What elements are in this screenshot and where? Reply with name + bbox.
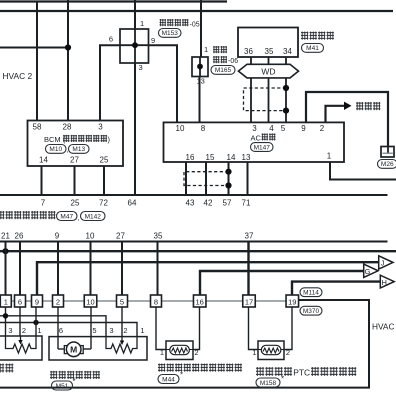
HVAC harness connector pin box 1 — [0, 295, 11, 307]
wire: conn 6 down to mode PBR pin 2 — [19, 307, 21, 336]
wire: feed line B to intake PBR pin 1 — [0, 323, 137, 337]
svg-text:5: 5 — [281, 124, 286, 133]
svg-text:M51: M51 — [56, 383, 69, 390]
svg-text:35: 35 — [265, 47, 274, 56]
label 转接 接头-06 — [213, 46, 227, 53]
svg-text:M147: M147 — [254, 144, 271, 151]
svg-text:1: 1 — [204, 45, 208, 54]
wire: amp pin 21 down to HVAC conn pin 1 — [5, 242, 7, 296]
svg-text:21: 21 — [1, 232, 10, 241]
svg-text:6: 6 — [59, 326, 63, 335]
svg-text:J: J — [381, 259, 385, 268]
label 至照明 — [356, 102, 381, 110]
svg-text:10: 10 — [86, 297, 94, 306]
HVAC harness connector pin box 6 — [15, 295, 26, 307]
svg-text:10: 10 — [86, 232, 95, 241]
junction dot: M165 center — [197, 64, 203, 70]
wire: AC panel pin 14 down to amp pin 57 — [228, 162, 230, 195]
svg-text:5: 5 — [120, 297, 124, 306]
svg-text:16: 16 — [196, 297, 204, 306]
svg-text:34: 34 — [283, 47, 292, 56]
connector ref oval M153 — [159, 29, 182, 38]
A/C auto amplifier box bottom edge — [0, 241, 388, 243]
svg-text:M158: M158 — [260, 380, 277, 387]
connector M165 (转接接头-06) box — [192, 57, 208, 77]
wire: vertical from top into connector M165 — [200, 0, 202, 57]
connector ref oval M114 — [300, 288, 322, 297]
junction dot pin21 bus — [2, 248, 8, 254]
svg-text:,: , — [78, 215, 80, 222]
svg-text:6: 6 — [109, 35, 113, 44]
wire: AC panel pin 9 up over to M26 — [306, 92, 388, 147]
page connector arrow G — [364, 264, 378, 277]
bus wire to arrow G — [200, 271, 364, 295]
svg-text:M26: M26 — [381, 161, 394, 168]
svg-text:3: 3 — [8, 326, 12, 335]
thermistor symbol M44 — [170, 345, 190, 354]
wire: amp pin 9 down to HVAC conn pin 2 — [57, 242, 59, 296]
mode door motor PBR box (cut at left edge) — [0, 336, 42, 360]
wire: M153 pin6 to BCM pin 3 — [100, 45, 120, 120]
svg-text:1: 1 — [37, 326, 41, 335]
svg-text:3: 3 — [252, 124, 257, 133]
svg-text:*: * — [180, 371, 183, 380]
junction dot line B — [33, 320, 38, 325]
svg-text:M47: M47 — [60, 213, 73, 220]
wire: amp pin 27 down to HVAC conn pin 5 — [121, 242, 123, 296]
svg-text:M153: M153 — [162, 30, 179, 37]
shield symbol WD — [238, 64, 298, 78]
evaporator intake temp sensor M44 box — [166, 341, 193, 360]
wire: vertical to BCM pin 28 — [67, 0, 69, 121]
svg-text:-05: -05 — [190, 21, 200, 28]
label 蒸发器进气温度传感器 — [158, 364, 242, 372]
svg-text:M370: M370 — [303, 308, 320, 315]
label 电机 (cut) — [0, 364, 14, 373]
svg-text:M41: M41 — [306, 45, 319, 52]
connector ref oval M44 + asterisk — [158, 375, 179, 384]
wire: conn 17 down to sensor M158 pin 1 — [249, 307, 259, 350]
svg-text:36: 36 — [244, 47, 253, 56]
label 空气加热PTC温度传感器 — [256, 367, 292, 376]
wire: conn 16 down to sensor M44 pin 2 — [193, 307, 200, 350]
wire: vertical from top into connector M153 — [134, 0, 136, 29]
arrowhead to illumination — [344, 102, 352, 110]
svg-text:M114: M114 — [303, 290, 319, 297]
svg-text:13: 13 — [197, 77, 205, 86]
svg-text:M10: M10 — [49, 146, 62, 153]
svg-text:5: 5 — [92, 326, 96, 335]
svg-text:*: * — [72, 377, 75, 386]
svg-text:17: 17 — [245, 297, 253, 306]
label 进气风门电机 — [50, 371, 100, 379]
HVAC harness connector pin box 2 — [53, 295, 64, 307]
junction dot line A — [3, 313, 8, 318]
svg-text:2: 2 — [22, 326, 26, 335]
connector ref oval M158 + asterisk — [256, 378, 280, 387]
svg-text:25: 25 — [100, 156, 109, 165]
svg-text:WD: WD — [261, 66, 275, 76]
svg-text:9: 9 — [35, 297, 39, 306]
svg-text:1: 1 — [252, 348, 256, 357]
HVAC harness connector pin box 5 — [117, 295, 128, 307]
svg-text:7: 7 — [41, 198, 46, 207]
wire: M153 internal vertical pin1-pin3 — [134, 29, 136, 63]
wire: top bus line 2 — [0, 10, 393, 12]
junction dot shield bottom — [283, 108, 289, 114]
svg-text:1: 1 — [140, 326, 144, 335]
connector ref oval M26 — [378, 160, 396, 169]
svg-text:6: 6 — [18, 297, 22, 306]
HVAC harness connector pin box 10 — [84, 295, 97, 307]
HVAC harness connector pin box 16 — [193, 295, 206, 307]
svg-text:2: 2 — [286, 348, 290, 357]
junction dot drain bottom — [225, 182, 231, 188]
wire: top bus line 1 — [0, 0, 227, 2]
svg-text:72: 72 — [99, 198, 108, 207]
svg-text:*: * — [281, 375, 284, 384]
svg-text:3: 3 — [109, 326, 113, 335]
svg-text:2: 2 — [123, 326, 127, 335]
svg-text:9: 9 — [301, 124, 306, 133]
wire: audio pin 35 stub — [268, 57, 270, 64]
svg-text:43: 43 — [186, 198, 195, 207]
svg-text:H: H — [381, 278, 386, 287]
connector ref oval M370 — [300, 306, 322, 315]
svg-text:71: 71 — [242, 198, 251, 207]
wire: WD to AC panel pin 4 — [268, 78, 270, 123]
wire: feed line A to intake PBR pin 3 — [0, 316, 106, 337]
svg-text:35: 35 — [154, 232, 163, 241]
wire: conn 10 down to motor pin 5 — [90, 307, 92, 337]
wire: vertical to BCM pin 58 — [36, 2, 38, 121]
svg-text:HVAC 2: HVAC 2 — [3, 71, 33, 81]
svg-text:): ) — [108, 135, 111, 144]
svg-text:13: 13 — [242, 153, 251, 162]
connector ref oval M41 — [302, 44, 324, 53]
wire: amp pin 37 down to HVAC conn pin 17 — [247, 242, 249, 296]
wire: M165 pin13 down to AC panel pin 8 — [199, 77, 201, 123]
svg-text:2: 2 — [320, 124, 325, 133]
svg-text:14: 14 — [39, 156, 48, 165]
svg-text:1: 1 — [4, 297, 8, 306]
wire: BCM pin 27 down to amp pin 25 — [74, 166, 76, 195]
HVAC connector strip link line — [0, 300, 290, 302]
HVAC harness connector pin box 19 — [286, 295, 299, 307]
shield dashed drain near amp pins 43-57 — [184, 172, 229, 186]
page connector arrow J — [379, 256, 393, 269]
svg-text:M165: M165 — [215, 67, 232, 74]
wire: amp pin 35 down to HVAC conn pin 8 — [157, 242, 159, 296]
A/C auto amplifier box top edge — [0, 194, 388, 196]
air heater PTC temp sensor M158 box — [258, 341, 284, 360]
wire: BCM pin 14 down to amp pin 7 — [41, 166, 43, 195]
junction dot at (68,47.5) — [65, 44, 71, 50]
svg-text:42: 42 — [204, 198, 213, 207]
svg-text:AC: AC — [251, 133, 262, 142]
svg-text:M44: M44 — [162, 376, 175, 383]
motor symbol — [57, 337, 59, 349]
svg-text:10: 10 — [176, 124, 185, 133]
svg-text:27: 27 — [70, 156, 79, 165]
connector M153 (转接接头-05) box — [120, 29, 149, 63]
thermistor symbol M158 — [261, 345, 281, 354]
svg-text:3: 3 — [98, 122, 103, 131]
connector ref ovals M10 M13 — [46, 145, 67, 154]
svg-text:57: 57 — [223, 198, 232, 207]
wire: audio pin 34 stub — [285, 57, 287, 64]
bus wire to right edge (pin 21 node) — [0, 250, 396, 252]
svg-text:2: 2 — [194, 348, 198, 357]
wire: conn 2 down to motor pin 6 — [57, 307, 59, 337]
wire: conn 8 down to sensor M44 pin 1 — [156, 307, 166, 350]
svg-text:1: 1 — [160, 348, 164, 357]
svg-text:3: 3 — [139, 63, 143, 72]
mode PBR internal: potentiometer — [6, 336, 37, 353]
connector ref oval M51 + asterisk — [52, 381, 73, 390]
bus wire to arrow J — [37, 262, 379, 295]
BCM box (车身控制模块) — [28, 121, 124, 167]
connector ref ovals M47 M142 — [57, 212, 78, 221]
wire: AC panel pin 16 down to amp pin 43 — [185, 162, 187, 195]
wire: BCM pin 25 down to amp pin 72 — [103, 166, 105, 195]
svg-text:PTC: PTC — [293, 367, 310, 377]
svg-text:-06: -06 — [228, 58, 238, 65]
intake PBR potentiometer — [106, 337, 137, 353]
connector ref oval M165 — [211, 66, 235, 75]
wire: AC panel pin 2 to illumination arrow — [326, 106, 345, 123]
svg-text:1: 1 — [327, 152, 332, 161]
svg-text:M13: M13 — [72, 146, 85, 153]
wire: conn 9 down to mode PBR pin 1 — [35, 307, 37, 336]
HVAC harness connector pin box 17 — [243, 295, 256, 307]
illumination connector M26 symbol — [381, 147, 394, 158]
wire: WD to AC panel pin 3 — [250, 78, 252, 123]
wire: audio pin 36 stub — [250, 57, 252, 64]
wire: M153 pin3 down to AC amp pin 64 — [134, 63, 136, 195]
bus wire to arrow H — [292, 282, 380, 295]
page connector arrow H — [380, 275, 394, 288]
wire: WD to AC panel pin 5 — [285, 78, 287, 123]
svg-text:8: 8 — [154, 297, 158, 306]
svg-text:M142: M142 — [85, 213, 102, 220]
wire: amp pin 10 down to HVAC conn pin 10 — [90, 242, 92, 296]
svg-text:58: 58 — [33, 122, 42, 131]
label 音响单元 — [301, 32, 334, 40]
HVAC harness connector pin box 8 — [151, 295, 162, 307]
label 转接接头-05 — [160, 19, 189, 26]
svg-text:G: G — [365, 267, 371, 276]
svg-text:19: 19 — [288, 297, 296, 306]
svg-text:1: 1 — [140, 19, 144, 28]
junction dot: M153 center — [132, 42, 138, 48]
svg-text:BCM (: BCM ( — [44, 135, 66, 144]
audio unit box (音响单元 M41) — [238, 28, 298, 58]
wire: conn 1 down to mode motor PBR pin 3 — [5, 307, 7, 336]
wire: AC panel pin 15 down to amp pin 42 — [205, 162, 207, 195]
svg-text:25: 25 — [71, 198, 80, 207]
wire: AC panel pin 13 down to amp pin 71 — [247, 162, 249, 195]
svg-text:8: 8 — [201, 124, 206, 133]
junction dot drain top — [225, 169, 231, 175]
svg-text:9: 9 — [151, 36, 155, 45]
svg-text:64: 64 — [128, 198, 137, 207]
wire: horizontal stub joining node at x68 — [0, 47, 68, 49]
junction dot shield top — [283, 85, 289, 91]
svg-text:HVAC: HVAC — [372, 321, 394, 331]
intake door motor box M51 — [49, 337, 147, 360]
wire: AC panel pin 1 out to right edge — [330, 162, 396, 180]
svg-text:26: 26 — [15, 232, 24, 241]
wire: conn 19 down to sensor M158 pin 2 — [284, 307, 292, 350]
svg-text:37: 37 — [245, 232, 254, 241]
svg-text:9: 9 — [55, 232, 60, 241]
wire: M153 internal horizontal pin6-pin9 — [120, 44, 149, 46]
wire: M165 internal vertical — [199, 57, 201, 77]
svg-text:27: 27 — [116, 232, 125, 241]
svg-text:28: 28 — [63, 122, 72, 131]
connector ref oval M147 — [251, 143, 274, 152]
svg-text:4: 4 — [269, 124, 274, 133]
svg-text:14: 14 — [227, 153, 236, 162]
wire: amp pin 26 down to HVAC conn pin 6 — [19, 242, 21, 296]
AC panel box (AC 面板 M147) — [164, 122, 345, 162]
svg-text:15: 15 — [206, 153, 215, 162]
svg-text:16: 16 — [186, 153, 195, 162]
wire: M153 pin9 to AC panel pin 10 — [149, 45, 178, 122]
svg-text:2: 2 — [56, 297, 60, 306]
HVAC harness connector pin box 9 — [32, 295, 43, 307]
shield dashed drain: rectangle around pins 3,4 — [244, 88, 287, 111]
HVAC unit boundary box — [0, 300, 369, 388]
label 空调自动放大器 — [0, 211, 56, 219]
svg-text:M: M — [70, 345, 77, 355]
wire: conn 5 down to intake PBR pin 2 — [121, 307, 123, 337]
